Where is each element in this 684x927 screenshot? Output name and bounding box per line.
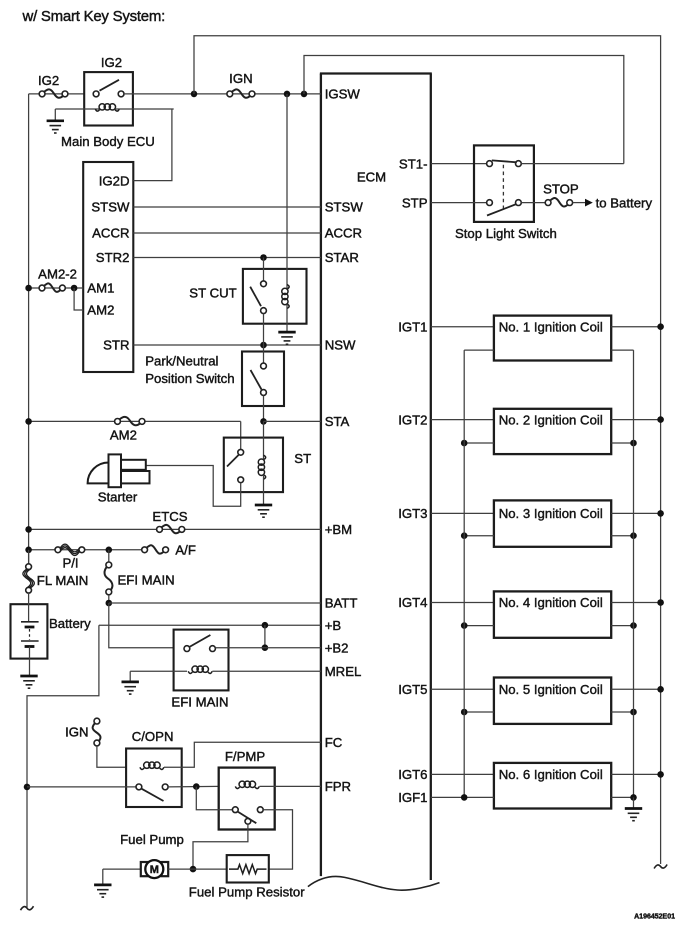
ECM pin IGSW bbox=[325, 87, 361, 102]
wire top loop A bbox=[194, 36, 661, 864]
Main Body ECU pin STSW bbox=[91, 200, 130, 215]
relay EFI MAIN switch arm bbox=[190, 635, 211, 647]
label fuse AM2 bbox=[110, 428, 137, 443]
node right bus IGT5 bbox=[657, 686, 664, 693]
ECM pin MREL bbox=[325, 664, 362, 679]
wire pump left to ground bbox=[103, 868, 141, 870]
fuse A/F bbox=[142, 545, 169, 553]
stop light switch dashed link bbox=[502, 165, 504, 211]
wire coil 6 bottom right bbox=[611, 796, 633, 798]
wire STR2 to ST CUT switch bbox=[263, 258, 265, 282]
svg-text:to Battery: to Battery bbox=[596, 195, 653, 210]
wire ST CUT coil feed bbox=[286, 94, 288, 289]
wire IGT1 bbox=[431, 326, 494, 328]
label ST bbox=[294, 451, 311, 466]
wire coil 3 bottom left bbox=[464, 535, 494, 537]
ECM pin ACCR bbox=[325, 226, 362, 241]
wire STOP to battery arrow bbox=[573, 199, 593, 207]
stop light switch lower arm bbox=[487, 204, 517, 216]
wire C/OPN coil to FC bbox=[164, 742, 321, 767]
svg-text:STR2: STR2 bbox=[96, 250, 130, 265]
ECM pin NSW bbox=[325, 338, 356, 353]
svg-text:Fuel Pump Resistor: Fuel Pump Resistor bbox=[189, 885, 305, 900]
wire EFI MAIN fuse to BATT bbox=[108, 595, 110, 603]
ECM pin IGT4 bbox=[398, 595, 427, 610]
fuel pump resistor box bbox=[227, 855, 269, 882]
starter solenoid lower rect bbox=[121, 471, 150, 483]
relay ST CUT box bbox=[243, 269, 307, 324]
stop light switch upper arm bbox=[492, 160, 517, 162]
No. 4 Ignition Coil box bbox=[494, 591, 611, 637]
No. 1 Ignition Coil box bbox=[494, 316, 611, 361]
node left bus AM2 junction bbox=[25, 418, 32, 425]
fuel pump motor M bbox=[145, 860, 163, 878]
ECM pin FPR bbox=[325, 779, 351, 794]
label Fuel Pump Resistor bbox=[189, 885, 305, 900]
svg-text:ST: ST bbox=[294, 451, 311, 466]
svg-text:Stop Light Switch: Stop Light Switch bbox=[455, 226, 557, 241]
label to Battery bbox=[596, 195, 653, 210]
svg-text:IGF1: IGF1 bbox=[398, 790, 427, 805]
ECM pin STA bbox=[325, 414, 350, 429]
svg-text:EFI MAIN: EFI MAIN bbox=[171, 695, 228, 710]
ECM pin +B2 bbox=[325, 640, 349, 655]
inner right bus (ground line) bbox=[633, 350, 635, 797]
wire ACCR bbox=[133, 232, 321, 234]
title text bbox=[22, 8, 166, 25]
svg-text:Battery: Battery bbox=[49, 616, 91, 631]
svg-text:IGT3: IGT3 bbox=[398, 506, 427, 521]
Main Body ECU pin ACCR bbox=[92, 226, 129, 241]
wire AM2 fuse bbox=[29, 420, 241, 422]
wire BATT junction to EFI MAIN switch bbox=[109, 603, 174, 648]
wire coil 4 bottom left bbox=[464, 625, 494, 627]
node inner right bus row 4 bbox=[630, 622, 637, 629]
ECM pin IGT3 bbox=[398, 506, 427, 521]
relay EFI MAIN switch contacts bbox=[184, 646, 215, 652]
svg-text:MREL: MREL bbox=[325, 664, 362, 679]
relay EFI MAIN coil bbox=[188, 666, 212, 673]
label No. 1 Ignition Coil bbox=[499, 319, 603, 334]
wire coil 5 bottom right bbox=[611, 711, 633, 713]
svg-text:IGSW: IGSW bbox=[325, 87, 361, 102]
svg-text:IGT2: IGT2 bbox=[398, 412, 427, 427]
relay C/OPN switch contacts bbox=[136, 784, 168, 790]
label Fuel Pump bbox=[120, 832, 184, 847]
ECM box (left edge) bbox=[320, 74, 322, 877]
node left bus AM2-2 junction bbox=[25, 285, 32, 292]
wire F/PMP right contact to resistor bbox=[263, 810, 292, 869]
ground (ignition coils) bbox=[625, 797, 642, 820]
ECM pin BATT bbox=[325, 596, 358, 611]
fuel pump motor brackets bbox=[141, 862, 168, 876]
svg-text:EFI MAIN: EFI MAIN bbox=[118, 573, 175, 588]
starter body rect bbox=[109, 454, 122, 487]
wire coil 2 bottom left bbox=[464, 442, 494, 444]
relay C/OPN switch arm bbox=[142, 789, 164, 801]
svg-text:STOP: STOP bbox=[543, 181, 579, 196]
wire coil 1 bottom right bbox=[611, 349, 633, 351]
relay C/OPN box bbox=[126, 749, 182, 808]
label Park/Neutral bbox=[145, 353, 218, 368]
wire IGT2 bbox=[431, 419, 494, 421]
wire pump to junction bbox=[168, 868, 193, 870]
svg-text:NSW: NSW bbox=[325, 338, 356, 353]
inner left bus (IGF line) bbox=[463, 350, 465, 797]
label Stop Light Switch bbox=[455, 226, 557, 241]
label FL MAIN bbox=[37, 573, 89, 588]
label fuse AM2-2 bbox=[38, 266, 77, 281]
ECM pin +BM bbox=[325, 522, 352, 537]
svg-text:IG2D: IG2D bbox=[99, 173, 130, 188]
svg-text:BATT: BATT bbox=[325, 596, 358, 611]
svg-text:FC: FC bbox=[325, 735, 343, 750]
svg-text:A/F: A/F bbox=[175, 543, 196, 558]
label fuse IGN 2 bbox=[65, 725, 88, 740]
wire coil 6 top right to bus bbox=[611, 773, 660, 775]
label No. 2 Ignition Coil bbox=[499, 412, 603, 427]
relay ST switch contacts bbox=[238, 449, 244, 482]
node left bus P/I junction bbox=[25, 547, 32, 554]
node +B junction bbox=[262, 622, 269, 629]
wire IGT6 bbox=[431, 773, 494, 775]
wire P/I row bbox=[29, 549, 145, 551]
relay IG2 box bbox=[84, 72, 133, 125]
svg-text:IG2: IG2 bbox=[38, 73, 59, 88]
fusible link P/I bbox=[55, 544, 85, 555]
Main Body ECU pin box bbox=[83, 162, 133, 372]
svg-text:F/PMP: F/PMP bbox=[225, 749, 266, 764]
node inner right bus row 5 bbox=[630, 709, 637, 716]
svg-text:+B2: +B2 bbox=[325, 640, 349, 655]
svg-text:No. 1 Ignition Coil: No. 1 Ignition Coil bbox=[499, 319, 603, 334]
label fuse STOP bbox=[543, 181, 579, 196]
label ST CUT bbox=[189, 286, 236, 301]
relay IG2 coil bbox=[95, 104, 119, 111]
wire +BM ETCS bbox=[29, 528, 321, 530]
label C/OPN bbox=[132, 729, 174, 744]
svg-text:No. 6 Ignition Coil: No. 6 Ignition Coil bbox=[499, 767, 603, 782]
wire coil 3 bottom right bbox=[611, 535, 633, 537]
svg-text:P/I: P/I bbox=[62, 556, 78, 571]
wire C/OPN switch feed bbox=[27, 786, 139, 788]
svg-text:Fuel Pump: Fuel Pump bbox=[120, 832, 184, 847]
label EFI MAIN fuse bbox=[118, 573, 175, 588]
wire IGT4 bbox=[431, 602, 494, 604]
svg-text:w/ Smart Key System:: w/ Smart Key System: bbox=[22, 8, 166, 25]
node coil ground junction bbox=[630, 794, 637, 801]
label F/PMP bbox=[225, 749, 266, 764]
wire STA to ST coil bbox=[263, 421, 265, 459]
stop light switch lower contacts bbox=[487, 200, 522, 206]
wire FL MAIN to battery bbox=[28, 593, 30, 622]
ECM box (wavy bottom break) bbox=[308, 877, 440, 891]
relay ST CUT switch arm bbox=[250, 287, 261, 307]
wire STR-NSW bbox=[133, 344, 321, 346]
svg-text:Starter: Starter bbox=[98, 489, 138, 504]
No. 3 Ignition Coil box bbox=[494, 500, 611, 546]
ground (EFI MAIN relay) bbox=[122, 671, 139, 694]
svg-text:ST CUT: ST CUT bbox=[189, 286, 236, 301]
svg-text:No. 5 Ignition Coil: No. 5 Ignition Coil bbox=[499, 682, 603, 697]
fuse EFI MAIN vertical bbox=[105, 550, 113, 595]
relay ST switch arm bbox=[227, 455, 239, 467]
svg-text:M: M bbox=[150, 864, 159, 876]
wire coil 4 bottom right bbox=[611, 625, 633, 627]
label No. 4 Ignition Coil bbox=[499, 595, 603, 610]
ECM box (top edge) bbox=[320, 72, 432, 74]
relay IG2 switch arm bbox=[100, 80, 120, 91]
wire MREL ground side bbox=[130, 670, 187, 672]
svg-text:FPR: FPR bbox=[325, 779, 351, 794]
relay EFI MAIN box bbox=[174, 630, 229, 691]
svg-text:ACCR: ACCR bbox=[325, 226, 362, 241]
relay IG2 coil wire left bbox=[55, 108, 99, 110]
node inner left bus row 5 bbox=[461, 709, 468, 716]
svg-text:A196452E01: A196452E01 bbox=[634, 913, 675, 920]
wire +B drop to bottom bus bbox=[27, 625, 99, 908]
svg-text:No. 3 Ignition Coil: No. 3 Ignition Coil bbox=[499, 506, 603, 521]
figure number bbox=[634, 913, 675, 920]
relay F/PMP switch contacts bbox=[232, 807, 263, 824]
fuse STOP bbox=[545, 198, 572, 206]
node junction ST CUT drop bbox=[284, 91, 291, 98]
svg-text:STA: STA bbox=[325, 414, 350, 429]
ground (battery) bbox=[20, 676, 37, 688]
label EFI MAIN relay bbox=[171, 695, 228, 710]
svg-text:Park/Neutral: Park/Neutral bbox=[145, 353, 218, 368]
stop light switch upper contacts bbox=[487, 161, 522, 167]
wire C/OPN to F/PMP bbox=[168, 785, 219, 788]
ground (fuel pump) bbox=[94, 869, 111, 897]
wire STR2-STAR bbox=[133, 257, 321, 259]
relay ST CUT coil bbox=[282, 285, 289, 309]
fuse IG2 bbox=[39, 89, 68, 97]
ECM pin FC bbox=[325, 735, 343, 750]
wire STP to STOP fuse bbox=[521, 202, 545, 204]
node STR2 junction bbox=[260, 254, 267, 261]
fuse IGN vertical bbox=[93, 718, 101, 746]
No. 2 Ignition Coil box bbox=[494, 409, 611, 454]
wire battery to ground bbox=[29, 647, 31, 677]
stop light switch box bbox=[474, 145, 534, 222]
label Starter bbox=[98, 489, 138, 504]
node inner right bus row 2 bbox=[630, 440, 637, 447]
svg-text:ECM: ECM bbox=[357, 170, 386, 185]
wire coil 5 top right to bus bbox=[611, 688, 660, 690]
wire top loop B (to ST1-) bbox=[304, 56, 624, 164]
link +B/+B2 bbox=[264, 625, 266, 648]
wire IGN fuse to C/OPN coil bbox=[97, 746, 126, 767]
ground (ST CUT) bbox=[278, 332, 295, 344]
wire PN switch to STA bbox=[263, 396, 265, 422]
wire coil 1 top right to bus bbox=[611, 326, 660, 328]
starter solenoid upper rect bbox=[121, 460, 146, 470]
node BATT junction bbox=[106, 600, 113, 607]
svg-text:IGT5: IGT5 bbox=[398, 682, 427, 697]
label relay IG2 bbox=[101, 55, 122, 70]
fusible link FL MAIN bbox=[23, 550, 34, 593]
wire STSW bbox=[133, 206, 321, 208]
svg-text:ACCR: ACCR bbox=[92, 226, 129, 241]
wire break right bus bbox=[654, 865, 667, 869]
ground (Main Body ECU relay) bbox=[47, 109, 64, 133]
wire IGF1 bbox=[431, 796, 494, 798]
relay F/PMP switch arm bbox=[238, 812, 257, 824]
wire coil 2 bottom right bbox=[611, 442, 633, 444]
wire AM2 branch bbox=[74, 288, 83, 310]
relay ST CUT switch contacts bbox=[261, 281, 267, 314]
svg-text:ETCS: ETCS bbox=[152, 509, 187, 524]
wire junction to resistor bbox=[193, 868, 227, 870]
ECM pin IGT6 bbox=[398, 767, 427, 782]
node right bus IGT6 bbox=[657, 771, 664, 778]
svg-text:STR: STR bbox=[103, 338, 129, 353]
wire coil 3 top right to bus bbox=[611, 512, 660, 514]
wire IG2 fuse feed bbox=[29, 93, 85, 95]
wire FPR bbox=[260, 785, 321, 787]
node inner left bus row 4 bbox=[461, 622, 468, 629]
svg-text:No. 4 Ignition Coil: No. 4 Ignition Coil bbox=[499, 595, 603, 610]
fuse ETCS bbox=[157, 525, 185, 533]
node junction IGN-A bbox=[191, 91, 198, 98]
svg-text:+BM: +BM bbox=[325, 522, 352, 537]
svg-text:+B: +B bbox=[325, 618, 342, 633]
wire AM2 to ST switch bbox=[240, 421, 242, 449]
wire STP bbox=[431, 202, 487, 204]
wire ST CUT switch to NSW bbox=[263, 314, 265, 346]
node EFI MAIN junction bbox=[106, 547, 113, 554]
svg-text:IGN: IGN bbox=[229, 71, 252, 86]
svg-text:STSW: STSW bbox=[91, 200, 130, 215]
label No. 3 Ignition Coil bbox=[499, 506, 603, 521]
ECM pin IGT1 bbox=[398, 319, 427, 334]
battery box bbox=[11, 604, 48, 658]
wire ST CUT coil to ground bbox=[286, 305, 288, 333]
fuse AM2 bbox=[115, 417, 145, 425]
label fuse IG2 bbox=[38, 73, 59, 88]
wire BATT bbox=[109, 602, 321, 604]
fuse AM2-2 bbox=[39, 283, 65, 291]
wire coil 5 bottom left bbox=[464, 711, 494, 713]
label fuse IGN bbox=[229, 71, 252, 86]
Park/Neutral Position Switch box bbox=[242, 352, 284, 407]
left bus wire bbox=[28, 94, 30, 564]
Main Body ECU pin AM2 bbox=[87, 303, 114, 318]
node STA junction bbox=[260, 418, 267, 425]
wire AM1 feed bbox=[29, 287, 84, 289]
ECM label bbox=[357, 170, 386, 185]
No. 6 Ignition Coil box bbox=[494, 763, 611, 809]
ground (ST relay) bbox=[255, 505, 272, 517]
Main Body ECU pin STR2 bbox=[96, 250, 130, 265]
relay IG2 coil wire right bbox=[115, 108, 174, 110]
starter motor housing bbox=[88, 463, 109, 484]
ECM pin +B bbox=[325, 618, 342, 633]
svg-text:AM2: AM2 bbox=[110, 428, 137, 443]
label P/I bbox=[62, 556, 78, 571]
wire IG2D to relay coil bbox=[133, 109, 172, 181]
wire break left bus bbox=[21, 906, 34, 910]
node FPR junction bbox=[193, 783, 200, 790]
node right bus IGT1 bbox=[657, 323, 664, 330]
wire F/PMP common to pump bbox=[193, 824, 248, 869]
svg-text:C/OPN: C/OPN bbox=[132, 729, 174, 744]
svg-text:AM1: AM1 bbox=[87, 281, 114, 296]
svg-text:IG2: IG2 bbox=[101, 55, 122, 70]
node right bus IGT2 bbox=[657, 416, 664, 423]
Main Body ECU pin AM1 bbox=[87, 281, 114, 296]
wire ST coil to ground bbox=[263, 475, 265, 505]
ECM pin IGF1 bbox=[398, 790, 427, 805]
ECM pin IGT2 bbox=[398, 412, 427, 427]
wire +B2 to ECM bbox=[216, 647, 321, 649]
fuel pump resistor zigzag bbox=[229, 865, 267, 874]
node IGF1 junction bbox=[461, 794, 468, 801]
relay F/PMP box bbox=[219, 768, 275, 830]
relay ST coil bbox=[258, 455, 265, 479]
svg-text:IGT4: IGT4 bbox=[398, 595, 427, 610]
node junction ST1 branch bbox=[301, 91, 308, 98]
node inner left bus row 3 bbox=[461, 532, 468, 539]
svg-text:Position Switch: Position Switch bbox=[145, 371, 234, 386]
PN switch contacts bbox=[261, 363, 267, 395]
label Main Body ECU bbox=[61, 134, 155, 149]
label Position Switch bbox=[145, 371, 234, 386]
svg-text:FL MAIN: FL MAIN bbox=[37, 573, 89, 588]
relay IG2 switch contacts bbox=[93, 91, 124, 97]
wire IG2 relay output bbox=[124, 93, 321, 95]
wire ST switch to starter bbox=[146, 466, 241, 507]
wire +B bbox=[99, 624, 321, 626]
svg-text:STSW: STSW bbox=[325, 200, 364, 215]
fuse IGN bbox=[227, 89, 255, 97]
wire NSW to PN switch bbox=[263, 345, 265, 363]
PN switch arm bbox=[251, 370, 262, 390]
wire STA to ECM bbox=[264, 420, 321, 422]
svg-text:STP: STP bbox=[402, 195, 428, 210]
battery cell plates bbox=[21, 622, 39, 647]
label No. 5 Ignition Coil bbox=[499, 682, 603, 697]
node inner left bus row 2 bbox=[461, 440, 468, 447]
svg-text:AM2: AM2 bbox=[87, 303, 114, 318]
relay C/OPN coil bbox=[140, 762, 164, 769]
ECM pin STP bbox=[402, 195, 428, 210]
ECM box (right edge) bbox=[430, 74, 432, 881]
label No. 6 Ignition Coil bbox=[499, 767, 603, 782]
node +B2 junction bbox=[262, 644, 269, 651]
wire coil 2 top right to bus bbox=[611, 419, 660, 421]
svg-text:ST1-: ST1- bbox=[399, 156, 428, 171]
Main Body ECU pin IG2D bbox=[99, 173, 130, 188]
wire coil 4 top right to bus bbox=[611, 602, 660, 604]
relay F/PMP coil bbox=[235, 781, 259, 788]
relay ST box bbox=[224, 438, 283, 493]
svg-text:IGT6: IGT6 bbox=[398, 767, 427, 782]
label fuse ETCS bbox=[152, 509, 187, 524]
svg-text:No. 2 Ignition Coil: No. 2 Ignition Coil bbox=[499, 412, 603, 427]
label Battery bbox=[49, 616, 91, 631]
svg-text:IGT1: IGT1 bbox=[398, 319, 427, 334]
No. 5 Ignition Coil box bbox=[494, 678, 611, 724]
ECM pin IGT5 bbox=[398, 682, 427, 697]
wire IGT5 bbox=[431, 688, 494, 690]
label A/F bbox=[175, 543, 196, 558]
ECM pin STAR bbox=[325, 250, 359, 265]
node AM1/AM2 junction bbox=[71, 285, 78, 292]
ECM pin ST1- bbox=[399, 156, 428, 171]
wire MREL bbox=[212, 670, 321, 672]
